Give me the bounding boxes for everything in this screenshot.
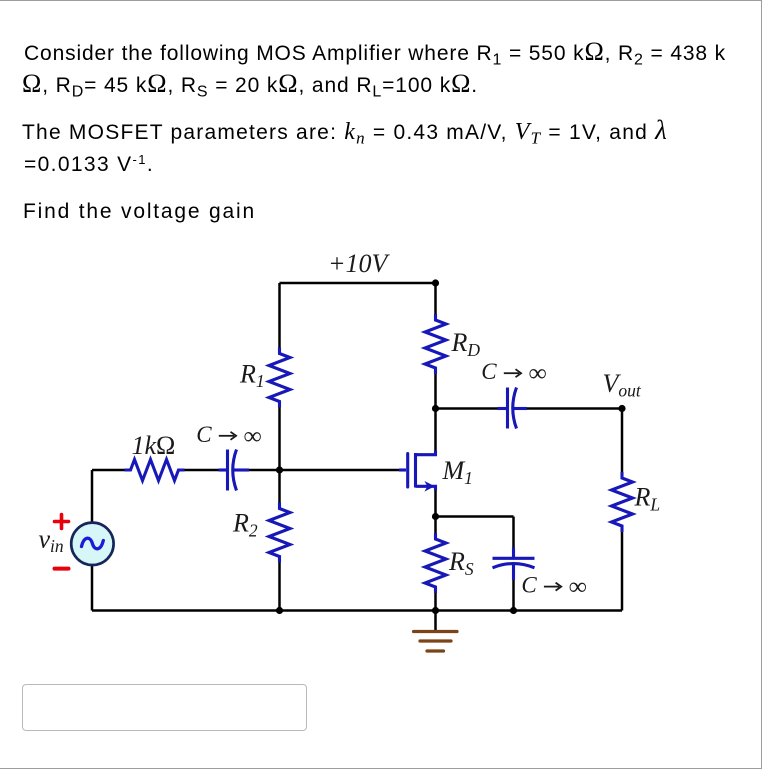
svg-text:∞: ∞ [569,574,587,601]
svg-text:∞: ∞ [244,423,262,450]
wire top rail +10V [280,282,436,285]
wire Vout branch to RL [621,409,624,475]
answer input box [22,684,307,731]
frame top border [0,0,761,1]
resistor RD [425,314,446,374]
resistor RS [425,533,446,593]
node Vout [618,405,625,412]
svg-text:+10V: +10V [328,249,391,278]
node drain [432,405,439,412]
wire vin top [91,470,94,524]
wire bypass branch upper [512,517,515,550]
wire RS upper [434,517,437,535]
resistor R2 [269,503,290,563]
node bottom bypass [510,607,517,614]
wire R1 branch lower to gate node [278,405,281,470]
svg-text:Find the voltage gain: Find the voltage gain [23,200,256,223]
wire RS lower [434,592,437,611]
frame bottom border [0,768,761,769]
capacitor C output coupling [498,388,528,429]
svg-text:R2: R2 [232,509,258,541]
svg-text:C: C [521,573,537,598]
transistor M1 [399,451,436,492]
wire R1 branch upper [278,283,281,350]
wire coupling cap to gate [247,469,403,472]
svg-text:C: C [481,359,497,384]
node bottom RS [432,607,439,614]
wire R2 branch upper [278,470,281,505]
ground [414,611,458,652]
svg-text:M1: M1 [442,456,473,488]
wire R2 branch lower [278,560,281,611]
wire bypass branch lower [512,580,515,611]
svg-text:RS: RS [448,547,474,579]
wire vin bottom [91,565,94,611]
wire mosfet source [434,489,437,517]
wire output cap to Vout node [526,407,623,410]
resistor R1 [269,348,290,408]
capacitor C input coupling [219,450,250,491]
svg-text:RD: RD [451,328,481,360]
svg-text:C: C [196,422,212,447]
label C infinity input [196,422,261,450]
wire RL to bottom rail [621,530,624,611]
resistor 1k ohm [125,460,185,481]
frame right border [761,0,762,769]
resistor RL [612,472,633,532]
svg-text:∞: ∞ [529,360,547,387]
label C infinity bypass [521,573,587,601]
node source [432,513,439,520]
node +10V [432,279,439,286]
wire drain node to output cap [436,407,500,410]
node bottom R2 [276,607,283,614]
node gate [276,466,283,473]
wire mosfet drain [434,409,437,453]
svg-text:Consider the following MOS Amp: Consider the following MOS Amplifier whe… [24,37,726,69]
svg-text:Ω, RD​= 45 kΩ, RS​ = 20 kΩ, an: Ω, RD​= 45 kΩ, RS​ = 20 kΩ, and RL​=100 … [22,69,478,101]
plus sign [55,515,69,529]
wire 1k resistor to coupling cap [183,469,221,472]
svg-text:R1: R1 [239,359,265,391]
svg-text:RL: RL [634,483,661,515]
source vin [71,523,113,565]
svg-text:=0.0133 V-1.: =0.0133 V-1. [24,152,154,176]
svg-text:The MOSFET parameters are: kn​: The MOSFET parameters are: kn​ = 0.43 mA… [22,115,668,148]
minus sign [55,567,69,571]
wire RD branch upper [434,283,437,317]
capacitor C source bypass [493,548,535,581]
wire bottom rail [92,609,622,612]
label C infinity output [481,359,547,387]
wire source node to bypass branch [436,515,514,518]
wire input left segment [92,469,127,472]
svg-text:Vout: Vout [603,369,642,401]
wire RD branch lower to drain node [434,372,437,409]
svg-text:1kΩ: 1kΩ [132,431,176,460]
